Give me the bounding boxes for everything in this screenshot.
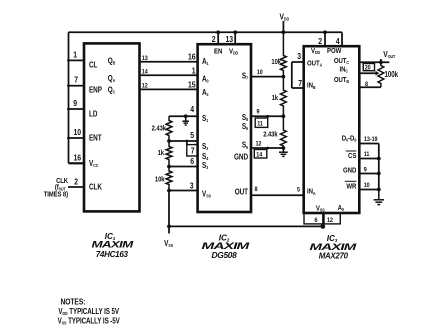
svg-text:INA: INA [307, 188, 316, 196]
IC1 pin 16 VCC [69, 153, 99, 168]
svg-text:10k: 10k [271, 58, 281, 66]
svg-text:VSS TYPICALLY IS -5V: VSS TYPICALLY IS -5V [58, 318, 120, 326]
ground at S1 pin 4 [182, 114, 189, 125]
wire S3 pin 6 [167, 156, 198, 168]
IC1 pin 2 CLK wire [68, 177, 103, 192]
wire VDD top rail [69, 31, 343, 33]
wire GND pin 9 [359, 166, 380, 176]
svg-text:MAXIM: MAXIM [92, 240, 135, 251]
wire pin 6 to VSS rail [320, 224, 325, 229]
svg-text:1k: 1k [272, 94, 279, 102]
svg-text:14: 14 [256, 151, 262, 159]
svg-text:11: 11 [257, 120, 263, 128]
svg-text:CLK: CLK [89, 182, 103, 192]
svg-text:10k: 10k [155, 176, 165, 184]
svg-text:74HC163: 74HC163 [96, 250, 129, 259]
wire QA pin 14 to A0 pin 1 [108, 66, 198, 83]
resistor 1k (divider) [272, 77, 287, 117]
svg-text:OUT: OUT [235, 187, 249, 197]
svg-text:7: 7 [74, 75, 78, 85]
svg-text:GND: GND [234, 152, 248, 162]
svg-text:100k: 100k [385, 71, 399, 79]
wire left VDD bus (IC1 control pins) [68, 32, 70, 163]
IC3 pin 6 VSS box [304, 213, 323, 224]
svg-text:16: 16 [188, 52, 196, 62]
svg-text:VDD TYPICALLY IS 5V: VDD TYPICALLY IS 5V [58, 308, 119, 316]
IC1 pin 10 ENT [67, 127, 102, 142]
svg-text:13: 13 [142, 54, 148, 62]
svg-text:DG508: DG508 [212, 251, 238, 260]
svg-text:WR: WR [346, 183, 356, 191]
IC3 interior names (left) [307, 60, 345, 213]
wire S5 pin 12 [251, 140, 285, 150]
svg-text:1k: 1k [158, 149, 165, 157]
wire chain to VSS rail [168, 191, 170, 227]
svg-text:D0-D6: D0-D6 [342, 135, 357, 143]
IC3 designator label [310, 234, 358, 260]
wire D0-D6 pins 13-19 [359, 135, 379, 189]
svg-text:OUTA: OUTA [307, 60, 322, 68]
svg-text:10: 10 [364, 181, 370, 189]
IC1 pin 9 LD [67, 98, 97, 118]
resistor 2.43k (IC2 left) [152, 116, 172, 141]
IC3 pin 4 POW [327, 36, 342, 55]
resistor 2.43k (divider) [263, 116, 286, 148]
wire OUTB pin 8 [359, 80, 381, 88]
svg-text:OUTC: OUTC [334, 57, 349, 65]
svg-text:INB: INB [307, 82, 316, 90]
svg-text:VSS: VSS [316, 205, 325, 213]
svg-text:13-19: 13-19 [364, 135, 378, 143]
svg-text:INC: INC [339, 66, 348, 74]
wire WR pin 10 [359, 181, 380, 191]
wire VSS pin 3 [167, 181, 198, 193]
svg-text:7: 7 [191, 146, 195, 156]
IC2 designator label [202, 233, 251, 259]
wire QB pin 13 to A1 pin 16 [108, 52, 198, 66]
wire S2 pin 5 [167, 130, 198, 143]
wire INC wiper [359, 71, 379, 76]
svg-text:12: 12 [327, 216, 333, 224]
svg-text:15: 15 [188, 80, 196, 90]
IC2 interior pin names (left) [202, 56, 211, 198]
svg-text:11: 11 [364, 150, 370, 158]
svg-text:2.43k: 2.43k [263, 131, 278, 139]
CLK input label [44, 177, 69, 198]
wire VSS bottom rail [167, 225, 323, 234]
wire S7 pin 10 [251, 68, 285, 78]
node VDD supply tap [280, 12, 290, 34]
wire S8 pin 9 [251, 108, 285, 118]
pin 11 box (S6 tied to S8) [255, 116, 268, 127]
pin 7 box (S4 tied to S2) [185, 140, 197, 156]
wire CS pin 11 [359, 150, 380, 160]
svg-text:CL: CL [89, 60, 98, 70]
IC U3 MAX270 body [304, 46, 360, 213]
IC U1 74HC163 body [84, 43, 140, 211]
svg-text:VDD: VDD [229, 48, 238, 56]
svg-text:10: 10 [74, 127, 81, 137]
notes block [58, 297, 120, 326]
svg-text:ENP: ENP [89, 85, 102, 95]
svg-text:ENT: ENT [89, 133, 102, 143]
IC2 pin 13 VDD [226, 30, 239, 55]
ground at S5/GND [282, 148, 284, 152]
svg-text:14: 14 [142, 68, 148, 76]
resistor 1k (IC2 left) [158, 141, 172, 167]
IC3 pin 12 A0 box [324, 213, 340, 224]
node VOUT terminal [381, 49, 396, 62]
svg-text:GND: GND [343, 167, 356, 175]
svg-text:LD: LD [89, 109, 97, 119]
pin 14 box (GND tied to S5) [254, 150, 266, 159]
wire OUT pin 8 to INA pin 5 [251, 185, 304, 195]
IC1 pin 1 CL [67, 50, 98, 70]
svg-text:2.43k: 2.43k [152, 125, 167, 133]
IC1 designator label [92, 232, 135, 259]
svg-text:MAX270: MAX270 [319, 251, 349, 260]
svg-text:TIMES 8): TIMES 8) [44, 191, 68, 199]
svg-text:EN: EN [214, 48, 222, 56]
svg-text:CS: CS [348, 152, 357, 160]
potentiometer 100k [378, 62, 398, 87]
IC3 pins 3/7 box (OUTA to INB) [292, 51, 304, 88]
IC U2 DG508 body [198, 44, 251, 212]
svg-text:10: 10 [257, 68, 263, 76]
ground at digital bus [378, 190, 380, 200]
resistor 10k (IC2 left) [155, 167, 172, 191]
wire QC pin 12 to A2 pin 15 [108, 80, 198, 95]
svg-text:POW: POW [327, 47, 342, 55]
svg-text:7: 7 [298, 78, 302, 88]
IC1 pin 7 ENP [67, 75, 102, 95]
svg-text:OUTB: OUTB [334, 76, 349, 84]
svg-text:A0: A0 [338, 204, 345, 212]
svg-text:12: 12 [256, 140, 262, 148]
wire OUTC pin 20 [359, 60, 389, 72]
svg-text:NOTES:: NOTES: [61, 297, 86, 307]
resistor 10k (divider from VDD) [271, 32, 286, 76]
svg-text:20: 20 [365, 64, 371, 72]
svg-text:13: 13 [226, 34, 234, 44]
IC2 pin 2 EN [212, 30, 223, 55]
svg-text:12: 12 [142, 82, 148, 90]
svg-text:VDD: VDD [311, 47, 320, 55]
IC2 interior pin names (right) [234, 71, 249, 197]
wire S1 pin 4 [169, 104, 198, 116]
svg-text:16: 16 [74, 153, 82, 163]
IC3 pin 2 VDD [311, 30, 327, 55]
IC3 interior names (right) [334, 57, 357, 190]
